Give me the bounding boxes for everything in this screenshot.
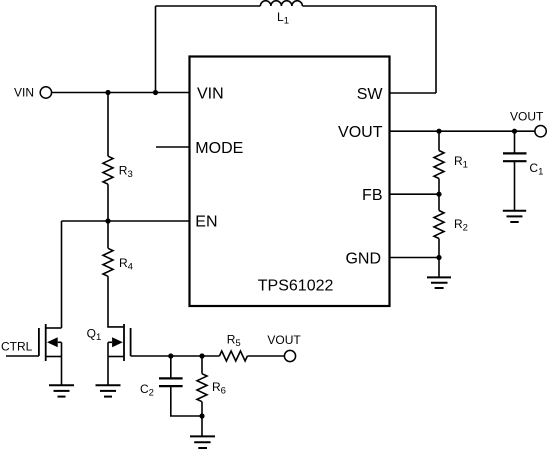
drain stub	[46, 327, 62, 329]
resistor R2	[434, 211, 444, 239]
wire EN down to Q2 drain	[61, 221, 63, 328]
svg-text:R3: R3	[119, 163, 133, 180]
node junction C1 top	[512, 129, 517, 134]
wire Q1 gate to R5 (output node)	[131, 355, 220, 357]
node junction R6 top	[199, 353, 204, 358]
wire ground stub	[438, 258, 440, 278]
node junction C2 top	[168, 353, 173, 358]
capacitor C1	[503, 131, 527, 211]
bottom lead	[171, 386, 202, 416]
top plate	[503, 152, 527, 154]
ground (under R2)	[427, 277, 451, 288]
inductor L1	[260, 1, 302, 6]
svg-text:R4: R4	[119, 256, 133, 273]
svg-text:TPS61022: TPS61022	[258, 278, 334, 295]
svg-text:FB: FB	[362, 187, 382, 204]
wire MODE stub	[156, 146, 190, 148]
svg-text:VIN: VIN	[14, 85, 34, 99]
node junction C2/R6 bottom	[199, 413, 204, 418]
resistor R4	[103, 248, 113, 276]
bottom plate	[159, 385, 183, 387]
node junction on VIN wire at R3	[105, 90, 110, 95]
gate bar	[130, 328, 132, 356]
transistor Q2 (CTRL MOSFET)	[6, 324, 62, 385]
wire VOUT pin to output terminal	[390, 130, 535, 132]
ground (under Q1)	[96, 385, 121, 396]
top plate	[159, 377, 183, 379]
svg-text:SW: SW	[357, 86, 384, 103]
node junction R1 top	[436, 129, 441, 134]
svg-text:VIN: VIN	[197, 85, 224, 102]
resistor R5	[219, 351, 247, 361]
svg-text:L1: L1	[277, 10, 289, 27]
svg-text:VOUT: VOUT	[267, 333, 301, 347]
transistor Q1	[108, 324, 131, 385]
op-amp U1 TPS61022 IC body	[190, 57, 390, 307]
bottom lead	[514, 161, 516, 211]
body arrow	[47, 337, 58, 347]
wire top left to inductor	[156, 5, 261, 7]
svg-text:C1: C1	[529, 161, 543, 178]
wire R3 bottom lead to EN	[107, 184, 109, 221]
source vertical to ground	[61, 342, 63, 385]
svg-text:R5: R5	[227, 333, 241, 350]
source stub	[46, 356, 62, 358]
body arrow lead	[58, 341, 62, 343]
wire R1 top lead	[438, 131, 440, 150]
node junction on VIN wire at L1 branch	[153, 90, 158, 95]
wire R2 top lead	[438, 194, 440, 210]
ground (under R6)	[190, 436, 215, 448]
svg-text:Q1: Q1	[87, 327, 102, 344]
node junction GND/R2	[436, 255, 441, 260]
wire R1 bottom lead to FB	[438, 179, 440, 195]
node junction EN/R3/R4	[105, 218, 110, 223]
wire R4 top lead	[107, 221, 109, 248]
wire ground stub	[201, 416, 203, 436]
svg-text:R1: R1	[454, 154, 468, 171]
terminal VOUT (bottom)	[284, 350, 295, 361]
wire VIN terminal to IC VIN pin	[52, 92, 190, 94]
wire left vertical up to inductor loop	[155, 6, 157, 93]
bottom plate	[503, 160, 527, 162]
wire EN	[62, 220, 190, 222]
wire R6 bottom lead	[201, 402, 203, 416]
svg-text:R2: R2	[454, 217, 468, 234]
wire FB pin	[390, 193, 439, 195]
resistor R1	[434, 151, 444, 179]
svg-text:CTRL: CTRL	[1, 340, 33, 354]
channel bar	[123, 324, 125, 361]
source stub	[108, 356, 124, 358]
wire inductor to top right corner	[302, 5, 436, 7]
wire R6 top lead	[201, 356, 203, 374]
terminal VOUT (right)	[535, 126, 546, 137]
svg-text:GND: GND	[345, 250, 381, 267]
ground (under CTRL MOSFET)	[49, 385, 74, 396]
ground (under C1)	[503, 211, 526, 222]
body arrow lead	[108, 341, 112, 343]
svg-text:R6: R6	[212, 380, 226, 397]
resistor R3	[103, 156, 113, 184]
top lead	[514, 131, 516, 153]
svg-text:MODE: MODE	[195, 140, 243, 157]
capacitor C2	[159, 356, 202, 416]
node junction FB/R1/R2	[436, 192, 441, 197]
wire SW pin	[390, 92, 436, 94]
source vertical to ground	[107, 342, 109, 385]
wire R3 top lead	[107, 93, 109, 157]
wire R4 bottom lead to Q1 drain	[108, 276, 123, 327]
svg-text:EN: EN	[195, 213, 217, 230]
wire right vertical down to SW	[435, 6, 437, 93]
svg-text:C2: C2	[140, 382, 154, 399]
svg-text:VOUT: VOUT	[338, 124, 383, 141]
svg-text:VOUT: VOUT	[510, 109, 544, 123]
gate bar	[38, 328, 40, 356]
wire GND pin	[390, 257, 439, 259]
body arrow	[112, 337, 123, 347]
top lead	[170, 356, 172, 378]
wire R2 bottom lead	[438, 239, 440, 258]
terminal VIN	[40, 87, 51, 98]
gate lead wire CTRL	[6, 355, 39, 357]
wire R5 to VOUT terminal	[247, 355, 284, 357]
channel bar	[45, 324, 47, 361]
resistor R6	[197, 374, 207, 402]
